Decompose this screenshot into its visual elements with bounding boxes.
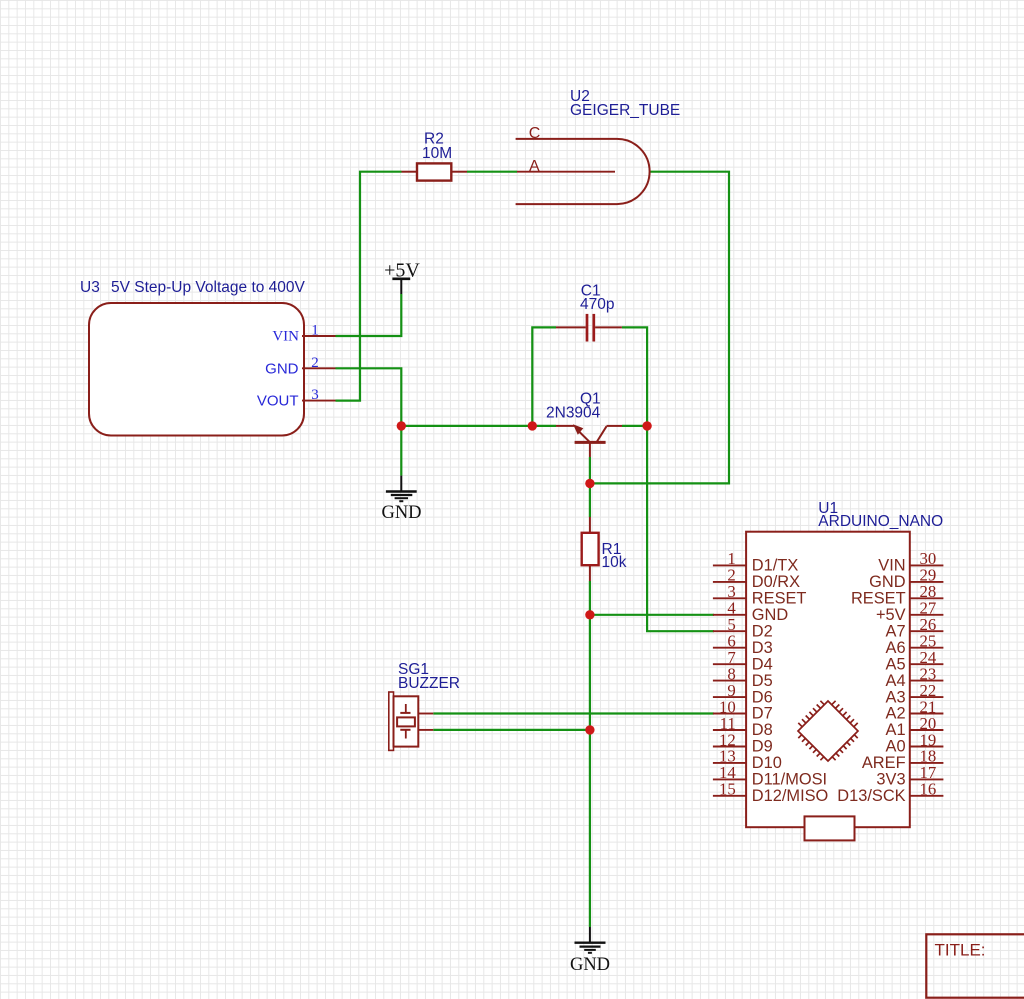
pin 1 VIN bbox=[302, 335, 336, 337]
resistor R2 bbox=[402, 163, 468, 180]
U1 pin 10 D7 bbox=[713, 697, 773, 722]
node collector bbox=[642, 421, 651, 430]
svg-text:+5V: +5V bbox=[384, 259, 420, 281]
svg-text:TITLE:: TITLE: bbox=[935, 941, 986, 960]
U1 pin 27 +5V bbox=[876, 599, 943, 624]
svg-text:GEIGER_TUBE: GEIGER_TUBE bbox=[570, 102, 680, 119]
U1 pin 11 D8 bbox=[713, 714, 773, 739]
U1 pin 30 VIN bbox=[878, 549, 943, 574]
svg-text:3: 3 bbox=[311, 387, 319, 403]
svg-text:5V Step-Up Voltage to 400V: 5V Step-Up Voltage to 400V bbox=[111, 279, 306, 296]
+5V power bbox=[392, 279, 410, 294]
svg-text:D6: D6 bbox=[752, 688, 773, 706]
svg-text:VIN: VIN bbox=[272, 328, 299, 344]
wire bbox=[590, 614, 714, 616]
svg-text:A4: A4 bbox=[886, 672, 906, 690]
svg-text:15: 15 bbox=[719, 780, 736, 799]
U1 pin 18 AREF bbox=[862, 747, 944, 772]
geiger tube U2 bbox=[516, 139, 650, 204]
ground (left) bbox=[386, 476, 417, 502]
U1 pin 8 D5 bbox=[713, 664, 773, 689]
svg-text:A: A bbox=[529, 158, 540, 175]
wire bbox=[532, 327, 556, 426]
svg-text:BUZZER: BUZZER bbox=[398, 675, 460, 692]
svg-text:D3: D3 bbox=[752, 639, 773, 657]
wire bbox=[622, 327, 714, 631]
U1 pin 7 D4 bbox=[713, 648, 773, 673]
svg-text:RESET: RESET bbox=[851, 590, 906, 608]
capacitor C1 bbox=[587, 314, 594, 342]
U3 step-up module bbox=[89, 303, 304, 436]
U1 pin 3 RESET bbox=[713, 582, 807, 607]
svg-text:10k: 10k bbox=[602, 554, 627, 571]
svg-text:A2: A2 bbox=[886, 705, 906, 723]
svg-text:C: C bbox=[529, 125, 541, 142]
U1 pin 12 D9 bbox=[713, 730, 773, 755]
svg-text:A6: A6 bbox=[886, 639, 906, 657]
svg-text:1: 1 bbox=[311, 323, 319, 339]
pin 2 GND bbox=[302, 367, 336, 369]
svg-text:AREF: AREF bbox=[862, 754, 906, 772]
svg-text:VOUT: VOUT bbox=[257, 393, 299, 410]
wire bbox=[433, 712, 714, 714]
buzzer SG1 bbox=[389, 692, 394, 750]
svg-text:GND: GND bbox=[752, 606, 789, 624]
U1 pin 22 A3 bbox=[886, 681, 944, 706]
chip glyph U1 bbox=[798, 701, 858, 761]
svg-text:D7: D7 bbox=[752, 705, 773, 723]
svg-text:GND: GND bbox=[570, 955, 610, 975]
svg-text:VIN: VIN bbox=[878, 557, 905, 575]
svg-text:16: 16 bbox=[920, 780, 937, 799]
wire bbox=[336, 368, 402, 475]
wire bbox=[590, 172, 729, 484]
svg-text:A5: A5 bbox=[886, 655, 906, 673]
wire bbox=[336, 294, 402, 336]
node R1-GND bbox=[585, 610, 594, 619]
U1 pin 24 A5 bbox=[886, 648, 944, 673]
svg-text:D2: D2 bbox=[752, 622, 773, 640]
U1 pin 5 D2 bbox=[713, 615, 773, 640]
U1 pin 16 D13/SCK bbox=[837, 780, 943, 805]
wire bbox=[336, 172, 402, 401]
svg-text:D5: D5 bbox=[752, 672, 773, 690]
svg-text:470p: 470p bbox=[580, 296, 614, 313]
U1 pin 17 3V3 bbox=[876, 763, 943, 788]
wire bbox=[589, 581, 591, 927]
svg-text:GND: GND bbox=[381, 503, 421, 523]
svg-text:A3: A3 bbox=[886, 688, 906, 706]
svg-text:GND: GND bbox=[869, 573, 906, 591]
U1 pin 1 D1/TX bbox=[713, 549, 798, 574]
U1 pin 28 RESET bbox=[851, 582, 943, 607]
svg-text:GND: GND bbox=[265, 360, 299, 377]
svg-text:+5V: +5V bbox=[876, 606, 906, 624]
svg-text:D11/MOSI: D11/MOSI bbox=[752, 771, 827, 789]
svg-text:3V3: 3V3 bbox=[876, 771, 905, 789]
U1 pin 19 A0 bbox=[886, 730, 944, 755]
U1 pin 6 D3 bbox=[713, 632, 773, 657]
svg-text:2: 2 bbox=[311, 355, 319, 371]
transistor Q1 bbox=[556, 426, 622, 457]
svg-text:A7: A7 bbox=[886, 622, 906, 640]
U1 pin 9 D6 bbox=[713, 681, 773, 706]
ground (bottom) bbox=[575, 927, 606, 953]
U1 pin 25 A6 bbox=[886, 632, 944, 657]
usb connector U1 bbox=[805, 816, 855, 840]
node base-cap bbox=[528, 421, 537, 430]
resistor R1 bbox=[589, 517, 591, 581]
svg-text:ARDUINO_NANO: ARDUINO_NANO bbox=[818, 513, 943, 530]
wire bbox=[589, 457, 591, 517]
U1 pin 26 A7 bbox=[886, 615, 944, 640]
node base-left bbox=[397, 421, 406, 430]
svg-text:A1: A1 bbox=[886, 721, 906, 739]
node buzzer-GND bbox=[585, 725, 594, 734]
svg-text:U3: U3 bbox=[80, 279, 100, 296]
svg-text:2N3904: 2N3904 bbox=[546, 405, 601, 422]
U1 pin 23 A4 bbox=[886, 664, 944, 689]
wire bbox=[622, 425, 647, 427]
svg-text:D13/SCK: D13/SCK bbox=[837, 787, 905, 805]
wire bbox=[433, 729, 590, 731]
svg-text:D1/TX: D1/TX bbox=[752, 557, 799, 575]
wire bbox=[467, 171, 517, 173]
svg-text:D8: D8 bbox=[752, 721, 773, 739]
svg-text:D12/MISO: D12/MISO bbox=[752, 787, 829, 805]
pin 3 VOUT bbox=[302, 400, 336, 402]
svg-text:10M: 10M bbox=[422, 145, 452, 162]
U1 pin 4 GND bbox=[713, 599, 788, 624]
svg-text:D0/RX: D0/RX bbox=[752, 573, 800, 591]
U1 pin 29 GND bbox=[869, 566, 943, 591]
U1 pin 15 D12/MISO bbox=[713, 780, 828, 805]
title block bbox=[926, 934, 1024, 997]
svg-text:RESET: RESET bbox=[752, 590, 807, 608]
svg-text:D4: D4 bbox=[752, 655, 773, 673]
svg-text:A0: A0 bbox=[886, 738, 906, 756]
U1 pin 21 A2 bbox=[886, 697, 944, 722]
U1 pin 13 D10 bbox=[713, 747, 782, 772]
U1 pin 14 D11/MOSI bbox=[713, 763, 827, 788]
svg-text:D9: D9 bbox=[752, 738, 773, 756]
wire bbox=[401, 425, 556, 427]
node emitter bbox=[585, 479, 594, 488]
U1 pin 20 A1 bbox=[886, 714, 944, 739]
U1 pin 2 D0/RX bbox=[713, 566, 800, 591]
svg-text:D10: D10 bbox=[752, 754, 782, 772]
